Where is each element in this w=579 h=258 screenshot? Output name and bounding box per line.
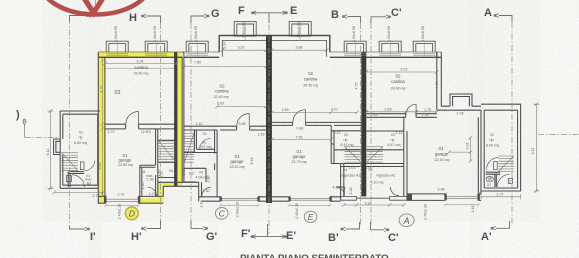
svg-text:3.97 mq: 3.97 mq [199, 145, 212, 149]
porch D/C door arc left [148, 187, 157, 196]
party wall D/C [174, 52, 177, 186]
light well bump 7 [379, 41, 401, 52]
svg-text:5.45: 5.45 [98, 163, 102, 170]
svg-text:01: 01 [438, 146, 444, 151]
svg-text:2.36: 2.36 [365, 201, 372, 205]
unit C rip room door arc [200, 139, 211, 150]
svg-text:33.08 mq: 33.08 mq [391, 87, 406, 91]
svg-text:I': I' [90, 231, 96, 243]
light well bump 3 [186, 41, 208, 52]
svg-text:2.78: 2.78 [457, 111, 464, 115]
svg-text:36.45 mq: 36.45 mq [303, 84, 318, 88]
marker H' bottom bracket [147, 221, 161, 229]
circled letter C [215, 208, 228, 220]
svg-text:A: A [403, 216, 410, 226]
svg-text:32.60 mq: 32.60 mq [214, 95, 229, 99]
svg-text:2.10: 2.10 [200, 201, 204, 208]
red logo ellipse arc [39, 0, 152, 15]
svg-text:cantina: cantina [391, 79, 405, 84]
svg-text:H': H' [131, 231, 142, 243]
svg-text:2.40x2.20: 2.40x2.20 [236, 202, 240, 218]
marker F/E top double arrow [254, 12, 286, 14]
section line horizontal left [25, 137, 59, 139]
dim line unit D top interior [103, 61, 178, 65]
right annex door arc west [487, 158, 499, 170]
unit D bottom wall [98, 196, 163, 203]
stairs unit C [184, 134, 194, 163]
svg-text:1.00: 1.00 [349, 166, 356, 170]
dim line left annex vertical [48, 109, 54, 190]
svg-text:rip.: rip. [202, 141, 207, 145]
svg-text:C': C' [391, 7, 402, 19]
svg-text:1.00x0.50: 1.00x0.50 [153, 26, 157, 42]
yellow highlight unit D right party wall [176, 51, 182, 186]
svg-text:1.00x0.50: 1.00x0.50 [352, 26, 356, 42]
unit A garage east wall [478, 110, 481, 200]
right annex door arc south [497, 174, 509, 186]
unit C garage door thin lines [220, 198, 258, 200]
svg-text:F': F' [241, 228, 251, 240]
svg-text:2.12: 2.12 [334, 131, 341, 135]
svg-text:ingresso A2: ingresso A2 [377, 174, 396, 178]
light well bump 6 [344, 41, 366, 52]
dim line right annex bottom [481, 194, 521, 199]
svg-text:F: F [238, 5, 245, 17]
dim line ingresso bottom [342, 203, 406, 207]
left annex light well [54, 139, 61, 155]
svg-text:1.10: 1.10 [196, 122, 203, 126]
unit E top wall right portion [330, 51, 442, 53]
section line F/E [268, 13, 270, 234]
door jamb blocks garage A [444, 194, 446, 201]
light well bump 1 [106, 41, 128, 52]
unit E door arc divider [293, 110, 305, 122]
marker I' bottom bracket [70, 226, 86, 229]
svg-text:H: H [129, 12, 137, 24]
svg-text:21.73 mq: 21.73 mq [291, 160, 307, 164]
svg-text:(2.90): (2.90) [141, 130, 150, 134]
svg-text:1.00: 1.00 [182, 169, 186, 176]
svg-text:2.12: 2.12 [396, 131, 403, 135]
dim line unit E garage interior [270, 138, 333, 142]
marker B top bracket [348, 17, 361, 24]
unit D top wall [98, 51, 182, 53]
svg-text:garage: garage [118, 158, 132, 163]
ingresso door arc A1 [336, 187, 345, 196]
svg-text:rip.: rip. [490, 138, 495, 142]
yellow highlight unit D top wall [98, 51, 182, 57]
unit D inner wall entrance zone [156, 129, 177, 197]
svg-text:2.72: 2.72 [108, 130, 115, 134]
marker I top bracket [70, 16, 98, 22]
svg-text:A': A' [481, 231, 492, 243]
svg-text:2.77: 2.77 [93, 194, 100, 198]
svg-text:2.40x2.20: 2.40x2.20 [117, 204, 121, 220]
svg-text:5.22: 5.22 [401, 68, 408, 72]
right annex outline [481, 104, 521, 191]
svg-text:6.00: 6.00 [217, 102, 224, 106]
svg-text:4.10 mq: 4.10 mq [371, 181, 384, 185]
svg-text:6.11: 6.11 [46, 149, 50, 156]
section line I [69, 18, 71, 228]
svg-text:4.10 mq: 4.10 mq [333, 186, 346, 190]
svg-text:03: 03 [391, 133, 395, 137]
door jamb blocks garage C [220, 197, 222, 201]
svg-text:1.00x0.50: 1.00x0.50 [114, 26, 118, 42]
svg-text:16.52 mq: 16.52 mq [230, 165, 245, 169]
svg-text:1.00x0.50: 1.00x0.50 [421, 26, 425, 42]
svg-text:B3: B3 [87, 182, 91, 186]
svg-text:1.00x0.50: 1.00x0.50 [242, 22, 246, 38]
unit C divider wall [184, 126, 266, 130]
circled letter D yellow [125, 207, 138, 220]
svg-text:7.59: 7.59 [296, 135, 303, 139]
svg-text:): ) [16, 109, 20, 121]
svg-text:PIANTA PIANO SEMINTERRATO: PIANTA PIANO SEMINTERRATO [240, 254, 389, 258]
svg-text:E': E' [286, 230, 296, 242]
svg-text:B1: B1 [169, 169, 173, 173]
svg-text:garage: garage [435, 152, 449, 157]
svg-text:6.47 mq: 6.47 mq [388, 143, 401, 147]
dim extension line at top of unit D [95, 0, 97, 14]
light well bump 2 [145, 41, 167, 52]
yellow highlight unit D left wall [98, 51, 105, 203]
red logo V [84, 0, 103, 13]
stairs unit D [158, 141, 176, 162]
svg-text:B: B [331, 9, 339, 21]
light well bump 4 upper [234, 22, 256, 35]
ingresso block walls [331, 164, 407, 201]
unit E garage door thin lines [289, 198, 330, 200]
svg-text:6.11: 6.11 [531, 148, 535, 155]
unit E interior walls right strip [331, 125, 361, 163]
svg-text:4.48: 4.48 [435, 82, 439, 89]
svg-text:1.34: 1.34 [223, 42, 227, 49]
unit A wall to annex [437, 106, 481, 110]
unit C bottom wall [199, 197, 266, 201]
svg-text:04: 04 [142, 170, 146, 174]
svg-text:03: 03 [344, 133, 348, 137]
svg-text:6.91: 6.91 [465, 143, 469, 150]
unit A divider wall [366, 114, 437, 118]
marker H top bracket [147, 16, 161, 23]
svg-text:ingresso A1: ingresso A1 [342, 174, 361, 178]
svg-text:25.40 mq: 25.40 mq [134, 72, 149, 76]
svg-text:1.00x0.50: 1.00x0.50 [297, 22, 301, 38]
marker G' bottom bracket [191, 221, 203, 228]
svg-text:B2: B2 [189, 172, 193, 176]
svg-text:0.80: 0.80 [297, 126, 304, 130]
unit A door arc divider [406, 104, 416, 114]
svg-text:garage: garage [292, 154, 306, 159]
svg-text:1.75: 1.75 [424, 108, 431, 112]
unit D divider wall cantina/garage [105, 124, 176, 129]
marker F'/E' bottom double arrow [253, 236, 285, 238]
svg-text:2.12: 2.12 [371, 113, 378, 117]
left annex door arc south [72, 175, 84, 187]
svg-text:2.69: 2.69 [385, 108, 392, 112]
svg-text:2.72: 2.72 [118, 192, 125, 196]
bump center dim extension lines [117, 22, 424, 57]
unit D door arc divider [126, 112, 138, 125]
svg-text:G': G' [206, 231, 218, 243]
svg-text:B': B' [328, 232, 339, 244]
ingresso door arc A2 [390, 187, 399, 196]
svg-text:04: 04 [199, 171, 203, 175]
party wall C/E [266, 35, 272, 203]
door jamb blocks garage D [104, 196, 106, 203]
raised middle top wall [219, 36, 330, 53]
svg-text:4.76: 4.76 [100, 86, 104, 93]
unit E bottom wall [266, 197, 341, 201]
section line A [511, 22, 513, 226]
svg-text:03: 03 [203, 132, 207, 136]
section line horizontal right [538, 134, 579, 136]
unit A interior walls rip room [366, 117, 407, 163]
marker A' bottom bracket [496, 221, 510, 228]
section line G [190, 23, 192, 226]
porch D/C door arc right [202, 187, 211, 196]
svg-text:8.80 mq: 8.80 mq [74, 141, 87, 145]
porch D/C north wall [158, 182, 202, 201]
window lines under bumps [106, 54, 435, 56]
svg-text:02: 02 [115, 90, 121, 96]
left annex F box [66, 176, 71, 182]
svg-text:2.10: 2.10 [207, 176, 211, 183]
dim line unit E interior [270, 111, 359, 115]
svg-text:04: 04 [343, 168, 347, 172]
svg-text:rip.: rip. [344, 138, 349, 142]
dim line unit A above divider [365, 110, 439, 114]
svg-text:2.30: 2.30 [141, 183, 145, 190]
svg-text:1.98: 1.98 [147, 178, 154, 182]
svg-text:cantina: cantina [134, 65, 148, 70]
left annex door arc east [85, 161, 95, 171]
left annex interior partitions [68, 172, 84, 187]
svg-text:C: C [219, 209, 226, 219]
door jamb blocks garage E [288, 197, 290, 201]
yellow highlight unit D bottom right [138, 198, 163, 203]
svg-text:3.88: 3.88 [296, 46, 303, 50]
svg-text:D: D [129, 209, 135, 219]
unit D closet walls [140, 165, 156, 196]
right annex interior partitions [486, 172, 501, 187]
svg-text:E: E [308, 212, 314, 222]
unit D left dim chain line [101, 58, 105, 198]
right annex F box [508, 178, 512, 183]
svg-text:A5: A5 [488, 178, 492, 182]
svg-text:A: A [484, 7, 492, 19]
svg-text:rip.: rip. [79, 136, 84, 140]
section line C' [370, 23, 372, 226]
circled letter E [304, 211, 317, 222]
unit C left wall line [182, 52, 184, 182]
stairs unit A [367, 147, 383, 163]
dim line unit A cantina top [365, 70, 439, 74]
left annex outline [60, 111, 100, 188]
svg-text:5.48: 5.48 [250, 157, 254, 164]
unit A garage door thin lines [445, 197, 478, 199]
unit E divider wall [272, 122, 361, 125]
light well right side [450, 94, 472, 106]
svg-text:8.60 mq: 8.60 mq [486, 144, 499, 148]
unit C door arc divider [237, 114, 249, 126]
right annex door leaf [494, 162, 498, 170]
marker G top bracket [191, 16, 205, 23]
svg-text:02: 02 [79, 131, 83, 135]
svg-text:1.59: 1.59 [282, 108, 289, 112]
unit C top wall left portion [184, 51, 219, 53]
svg-text:G: G [211, 8, 220, 20]
light well bump 8 [413, 41, 435, 52]
stairs right annex [498, 156, 514, 172]
svg-text:1.30: 1.30 [203, 189, 210, 193]
svg-text:3.38: 3.38 [239, 122, 246, 126]
stairs unit E [345, 147, 361, 163]
svg-text:1.00x0.50: 1.00x0.50 [387, 26, 391, 42]
stairs left annex [62, 153, 79, 171]
porch jamb A [407, 194, 412, 201]
svg-text:7.80: 7.80 [194, 61, 201, 65]
svg-text:cantina: cantina [215, 89, 229, 94]
tick marks garage doors [104, 192, 480, 198]
section line B [360, 23, 362, 226]
right annex A5 ellipse [486, 176, 493, 182]
dim line unit C 7.80 [182, 65, 268, 69]
svg-text:3.20: 3.20 [238, 46, 245, 50]
svg-text:1.38: 1.38 [349, 188, 353, 195]
dim line left annex bottom [52, 191, 105, 195]
marker A top bracket [499, 16, 512, 23]
dim line right annex vertical [533, 102, 539, 192]
svg-text:32.40 mq: 32.40 mq [435, 158, 450, 162]
svg-text:4.75: 4.75 [355, 83, 359, 90]
svg-text:2.78: 2.78 [422, 113, 429, 117]
unit D garage door thin lines [106, 199, 139, 201]
party wall E/A [361, 52, 366, 196]
circled letter A [399, 214, 414, 227]
svg-text:5.34: 5.34 [137, 60, 144, 64]
svg-text:1.48: 1.48 [471, 206, 475, 213]
light well bump 5 upper [289, 22, 311, 35]
svg-text:02: 02 [490, 133, 494, 137]
svg-text:1.00: 1.00 [366, 166, 373, 170]
svg-text:cantina: cantina [304, 77, 318, 82]
svg-text:1.59: 1.59 [258, 132, 265, 136]
dim line raised section [221, 48, 329, 52]
svg-text:1.23: 1.23 [149, 192, 156, 196]
svg-text:1.00x0.50: 1.00x0.50 [194, 26, 198, 42]
unit A bottom wall [407, 194, 481, 201]
svg-text:2.77: 2.77 [497, 193, 504, 197]
yellow highlight unit D jog vertical [157, 182, 163, 204]
svg-text:14.80 mq: 14.80 mq [118, 163, 133, 167]
svg-text:02: 02 [308, 71, 314, 76]
dim line unit A garage [447, 136, 472, 163]
unit D left wall [98, 52, 105, 203]
yellow highlight unit D jog horizontal [157, 182, 182, 187]
marker C' top bracket [371, 17, 386, 23]
svg-text:rip.: rip. [391, 138, 396, 142]
svg-text:6.47 mq: 6.47 mq [341, 143, 354, 147]
marker C'2 bottom bracket [371, 222, 385, 230]
svg-text:02: 02 [395, 74, 401, 79]
svg-text:C': C' [388, 232, 399, 244]
yellow highlight unit D bottom left [98, 198, 106, 203]
dim line unit C interior 6.00 [215, 105, 267, 109]
svg-text:E: E [290, 5, 297, 17]
svg-text:2.40x2.20: 2.40x2.20 [423, 204, 427, 220]
marker B' bottom bracket [346, 222, 360, 229]
unit A right wall cantina [437, 52, 442, 110]
dim lines under garage doors [104, 203, 480, 207]
svg-text:5.48: 5.48 [438, 187, 445, 191]
section line H [160, 23, 162, 226]
svg-text:01: 01 [487, 183, 491, 187]
left annex door leaf [80, 162, 84, 170]
ingresso south wall [341, 197, 407, 201]
svg-text:garage: garage [230, 159, 244, 164]
